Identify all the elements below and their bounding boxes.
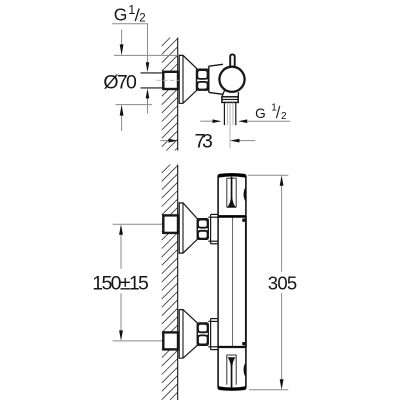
top handle grip wedge	[228, 177, 236, 207]
mixer body (front view)	[218, 216, 246, 347]
upper wall square fitting (front view)	[163, 215, 178, 233]
outlet centre line	[229, 102, 231, 148]
label G 1/2 (outlet) leader arrows	[200, 120, 213, 122]
dimension Ø70 lower arrow	[121, 113, 123, 131]
valve body housing (top view)	[209, 64, 225, 94]
svg-text:2: 2	[281, 111, 287, 122]
wall (top view) surface edge line	[177, 38, 179, 151]
escutcheon cone (top view)	[179, 55, 196, 103]
bottom handle (front view)	[218, 347, 246, 390]
bottom handle groove	[226, 355, 228, 385]
svg-text:1: 1	[271, 103, 277, 114]
outlet transition (top view)	[222, 91, 225, 97]
dimension 150 upper extension / centre line	[113, 223, 164, 225]
svg-text:73: 73	[195, 131, 213, 153]
label G1/2 leader underline + drop line	[112, 24, 147, 62]
union nut (top view)	[197, 69, 209, 90]
body seam line	[232, 218, 234, 347]
wall (front view) hatching	[162, 165, 178, 400]
svg-text:305: 305	[268, 273, 297, 294]
dimension 150 line + arrows	[120, 234, 122, 269]
bottom handle grip wedge	[228, 357, 236, 387]
top handle (front view)	[218, 174, 246, 216]
outlet collar nut (top view)	[222, 97, 238, 103]
lower body boss	[211, 318, 225, 320]
thermostat head circle (top view)	[219, 67, 244, 92]
upper union nut (front view)	[197, 219, 208, 240]
dimension Ø70 bottom extension line	[116, 104, 153, 106]
shower hose outlet (top view)	[223, 102, 225, 125]
dimension Ø70 upper arrow	[121, 30, 123, 48]
dimension 73 right arrow	[239, 140, 256, 142]
upper escutcheon cone (front view)	[179, 203, 197, 253]
bottom handle safety button	[244, 363, 246, 377]
body detail dot upper	[242, 219, 245, 222]
wall union square fitting (top view)	[163, 72, 178, 89]
svg-text:150±15: 150±15	[92, 272, 149, 294]
joint line above bottom handle	[218, 346, 246, 349]
lower escutcheon cone (front view)	[179, 310, 197, 359]
svg-text:2: 2	[139, 12, 145, 24]
upper body boss	[211, 213, 225, 215]
wall (front view) surface edge line	[177, 165, 179, 400]
bottom handle dark cap edge	[218, 388, 245, 389]
svg-text:G: G	[114, 5, 128, 25]
top handle dark cap edge	[218, 175, 245, 176]
svg-text:1: 1	[128, 3, 135, 17]
lower wall square fitting (front view)	[163, 332, 178, 349]
wall (top view) hatching	[162, 38, 178, 151]
inlet pipe stub (top view)	[141, 72, 164, 74]
lower union nut (front view)	[197, 323, 208, 345]
adjustment knob on head (top view)	[230, 54, 235, 66]
body detail dot lower	[242, 342, 245, 345]
svg-text:G: G	[255, 106, 266, 121]
top handle groove	[226, 178, 228, 208]
svg-text:Ø70: Ø70	[103, 72, 137, 94]
joint line under top handle	[218, 215, 246, 218]
dimension 305 bottom extension line	[249, 389, 288, 391]
top handle safety button	[244, 187, 246, 201]
upper neck between nut and body	[208, 216, 217, 218]
dimension 305 top extension line	[248, 174, 288, 176]
dimension Ø70 top extension line	[114, 54, 179, 56]
lower neck between nut and body	[208, 320, 217, 322]
dimension 150 lower extension / centre line	[113, 340, 164, 342]
dimension 305 line + arrows	[281, 185, 283, 272]
label G1/2 lower arrow (points at pipe underside)	[147, 98, 149, 114]
square fitting centre line (top view)	[157, 79, 180, 81]
dimension 73 left arrow	[160, 140, 169, 142]
